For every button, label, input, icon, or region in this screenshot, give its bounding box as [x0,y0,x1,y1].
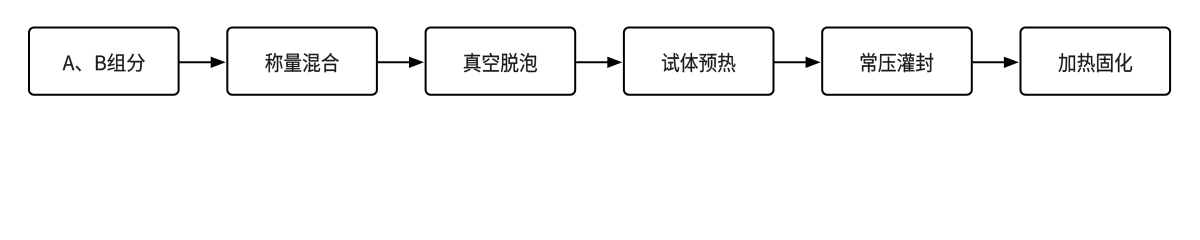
process box 4 [624,28,774,95]
label text: 试体预热 [662,53,735,72]
process box 6 [1021,28,1171,95]
label text: 常压灌封 [861,53,933,72]
arrow connector 2: box 2 to box 3 [378,57,424,68]
process box 5 [822,28,972,95]
label text: 称量混合 [265,53,339,72]
flowchart: potting process steps [0,0,1200,124]
arrow connector 3: box 3 to box 4 [576,57,622,68]
process box 3 [426,28,576,95]
label text: 真空脱泡 [464,53,537,72]
process box 2 [227,28,377,95]
label text: A、B组分 [63,53,145,71]
label text: 加热固化 [1058,53,1132,72]
arrow connector 1: box 1 to box 2 [180,57,226,68]
arrow connector 5: box 5 to box 6 [973,57,1019,68]
process box 1 [29,28,179,95]
arrow connector 4: box 4 to box 5 [775,57,821,68]
